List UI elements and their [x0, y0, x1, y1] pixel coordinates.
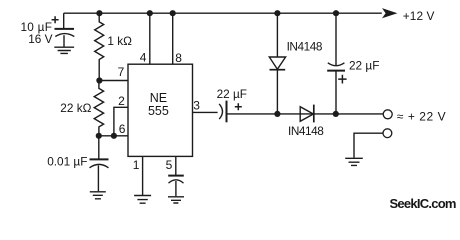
plus sign C3	[235, 103, 242, 110]
diode D1 cathode bar	[270, 69, 286, 71]
capacitor C1 curved plate	[55, 34, 74, 37]
terminal lower	[383, 129, 392, 138]
diode D2 cathode bar	[313, 105, 315, 123]
capacitor C4 straight plate	[327, 70, 345, 72]
capacitor C1 lower stub	[63, 35, 65, 47]
wire pin1	[142, 156, 144, 195]
capacitor C5 top plate	[168, 175, 184, 177]
wire +12V rail	[64, 12, 382, 14]
svg-text:22 kΩ: 22 kΩ	[60, 101, 91, 115]
diode D1 IN4148 upper stub	[276, 13, 278, 57]
svg-text:8: 8	[175, 51, 182, 65]
svg-text:6: 6	[119, 122, 126, 136]
capacitor C5 lower stub	[175, 181, 177, 196]
wire pin2	[114, 107, 128, 136]
svg-text:1 kΩ: 1 kΩ	[107, 34, 132, 48]
svg-text:5: 5	[166, 158, 173, 172]
wire pin5	[175, 156, 177, 175]
svg-text:22 µF: 22 µF	[349, 59, 379, 73]
svg-text:7: 7	[118, 65, 125, 79]
wire pin6	[99, 135, 128, 137]
diode D2 IN4148 triangle	[300, 107, 313, 122]
svg-text:IN4148: IN4148	[287, 40, 323, 54]
svg-text:3: 3	[193, 99, 200, 113]
wire pin7	[99, 80, 128, 82]
ground G2	[90, 192, 106, 199]
svg-text:0.01 µF: 0.01 µF	[47, 155, 87, 169]
node rail/R1	[96, 10, 102, 16]
node R2/C2/pin6	[96, 133, 102, 139]
capacitor C1 top plate	[55, 28, 75, 30]
capacitor C4 22uF upper stub	[335, 13, 337, 65]
arrowhead +12V	[382, 8, 397, 18]
capacitor C2 curved plate	[90, 164, 109, 167]
node rail/C4	[333, 10, 339, 16]
node rail/D1	[274, 10, 280, 16]
svg-text:22 µF: 22 µF	[217, 87, 247, 101]
node D1/output	[274, 111, 280, 117]
ground G4	[168, 197, 184, 203]
capacitor C4 curved plate	[328, 63, 345, 66]
svg-text:555: 555	[148, 104, 169, 118]
svg-text:≈ + 22 V: ≈ + 22 V	[397, 110, 446, 124]
capacitor C3 straight plate	[226, 101, 228, 123]
node pin2/pin6	[111, 133, 117, 139]
capacitor C4 lower stub	[335, 71, 337, 114]
wire pin3	[193, 111, 218, 113]
capacitor C2 top plate	[90, 158, 109, 160]
node rail/pin4	[147, 10, 153, 16]
svg-text:4: 4	[140, 50, 147, 64]
svg-text:IN4148: IN4148	[288, 124, 324, 138]
svg-text:+12 V: +12 V	[403, 9, 435, 23]
op-amp U1 NE555 box	[128, 64, 193, 156]
resistor R2 22k	[94, 81, 103, 136]
svg-text:2: 2	[118, 94, 125, 108]
node pin7/R1/R2	[96, 77, 102, 83]
svg-text:NE: NE	[150, 91, 167, 105]
diode D1 triangle	[269, 57, 285, 69]
capacitor C2 lower stub	[97, 165, 99, 191]
capacitor C3 22uF curved plate	[219, 104, 222, 119]
node C4/output	[333, 111, 339, 117]
wire lower terminal to ground	[354, 133, 383, 158]
ground G1	[54, 47, 74, 53]
wire pin4	[149, 13, 151, 64]
ground G5	[345, 158, 363, 165]
diode D1 lower stub	[276, 70, 278, 114]
svg-text:16 V: 16 V	[28, 32, 52, 46]
svg-text:1: 1	[133, 158, 140, 172]
ground G3	[134, 196, 151, 204]
terminal output +22V	[383, 110, 392, 119]
resistor R1 1k	[95, 13, 104, 80]
capacitor C5 curved plate	[169, 180, 184, 183]
wire output node	[227, 113, 384, 115]
svg-text:SeekIC.com: SeekIC.com	[390, 196, 456, 211]
plus sign C4	[338, 75, 346, 84]
wire pin8	[172, 13, 174, 64]
capacitor C1 10uF stub	[63, 13, 65, 28]
node rail/pin8	[170, 10, 176, 16]
plus sign C1	[52, 16, 59, 23]
capacitor C2 0.01uF stub	[98, 136, 100, 159]
